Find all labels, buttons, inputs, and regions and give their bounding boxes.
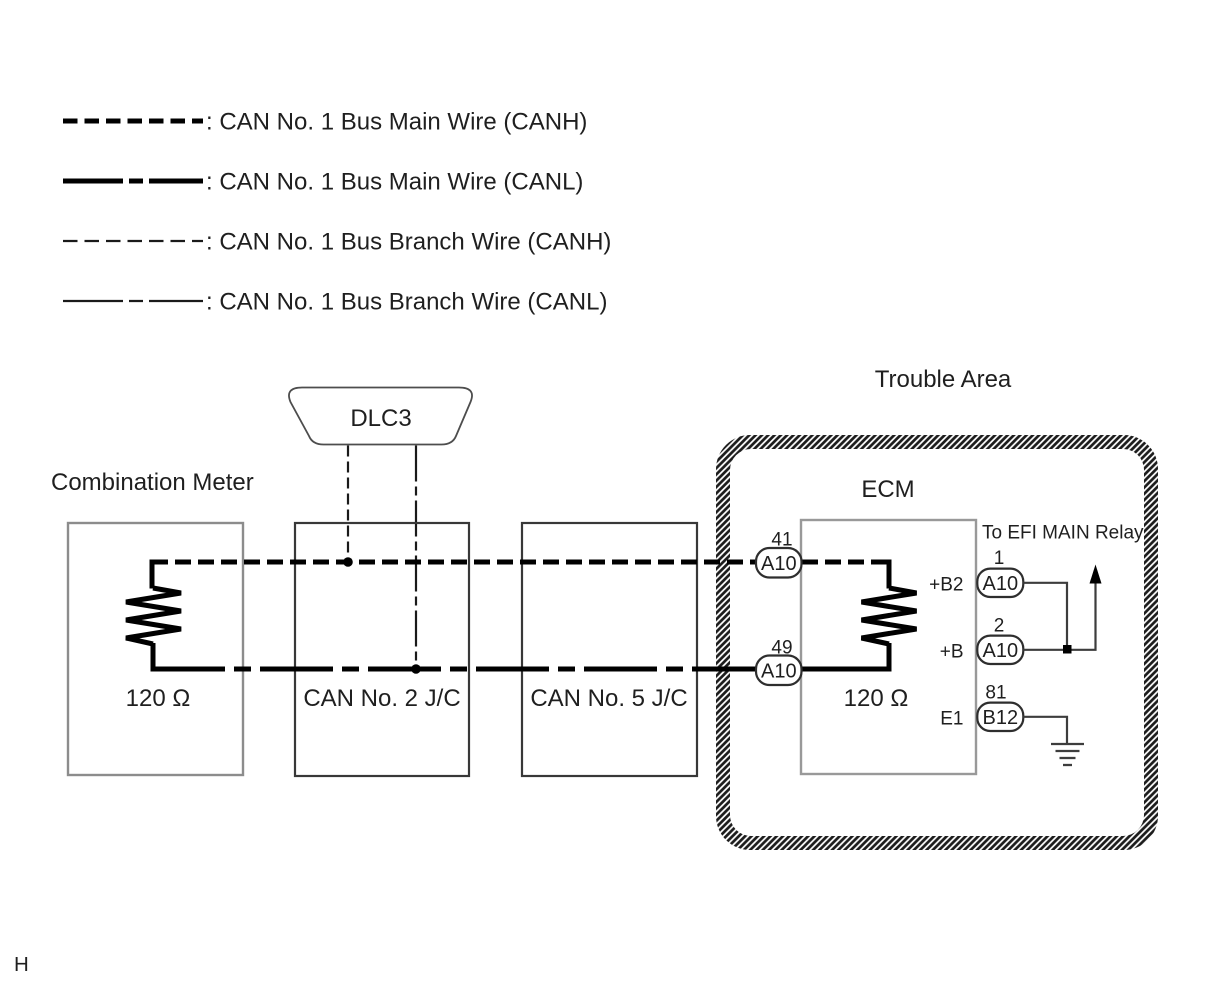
wire: resistor bottom drop (Combination Meter) [151, 643, 156, 672]
legend line sample: CAN No. 1 Bus Main Wire (CANH) [63, 119, 203, 124]
svg-text:: CAN No. 1 Bus Branch Wire (C: : CAN No. 1 Bus Branch Wire (CANH) [206, 229, 611, 256]
wire: resistor bottom drop (ECM) [887, 643, 892, 672]
wire from E1 terminal to ground [1023, 717, 1067, 744]
wire from +B2 terminal [1023, 583, 1067, 649]
arrowhead to EFI MAIN relay [1090, 565, 1102, 584]
svg-text:DLC3: DLC3 [350, 405, 411, 432]
svg-text:120 Ω: 120 Ω [126, 685, 191, 712]
svg-text:ECM: ECM [861, 476, 914, 503]
svg-text:: CAN No. 1 Bus Main Wire (CAN: : CAN No. 1 Bus Main Wire (CANH) [206, 109, 587, 136]
legend line sample: CAN No. 1 Bus Branch Wire (CANL) [63, 300, 203, 302]
svg-text:120 Ω: 120 Ω [844, 685, 909, 712]
svg-text:H: H [14, 953, 29, 976]
svg-text:+B2: +B2 [929, 575, 963, 596]
resistor 120 ohm (ECM) [862, 588, 917, 644]
wire: CANH corner drop in Combination Meter [150, 560, 155, 589]
svg-text:A10: A10 [761, 660, 797, 682]
box: ECM [801, 520, 976, 774]
resistor 120 ohm (Combination Meter) [126, 588, 181, 644]
wire: CANH corner drop in ECM [887, 560, 892, 589]
wire: CANL solid inside ECM from pin 49 to resistor [802, 667, 892, 672]
svg-text:: CAN No. 1 Bus Branch Wire (C: : CAN No. 1 Bus Branch Wire (CANL) [206, 289, 607, 316]
svg-text:+B: +B [940, 642, 964, 663]
svg-text:CAN No. 2 J/C: CAN No. 2 J/C [303, 685, 460, 712]
svg-text:Trouble Area: Trouble Area [875, 366, 1012, 393]
wire: CANH main (thick dashed) from Combination Meter to ECM pin 41 [152, 560, 756, 565]
svg-text:A10: A10 [983, 573, 1019, 595]
ground symbol [1051, 744, 1084, 765]
svg-text:B12: B12 [983, 707, 1019, 729]
terminal oval A10 pin 41 [756, 548, 802, 578]
junction dot: CANH branch on main wire [343, 557, 353, 567]
terminal oval A10 pin 49 [756, 656, 802, 686]
box: CAN No. 5 J/C [522, 523, 697, 776]
legend line sample: CAN No. 1 Bus Main Wire (CANL) [63, 179, 203, 184]
svg-text:2: 2 [994, 616, 1005, 637]
wire: CANL main (thick long-dash) from Combination Meter to ECM pin 49 [152, 667, 756, 672]
trouble area inner white [730, 449, 1144, 836]
wire from +B terminal to relay arrow [1023, 583, 1095, 650]
junction dot: CANL branch on main wire [411, 664, 421, 674]
junction square on +B wire [1063, 645, 1072, 654]
wire: DLC3 branch (CANL) down to CAN No.2 J/C [415, 446, 417, 670]
svg-text:Combination Meter: Combination Meter [51, 469, 254, 496]
trouble area hatched border (outer) [716, 435, 1158, 850]
svg-text:1: 1 [994, 548, 1005, 569]
terminal oval A10 pin 2 [977, 636, 1023, 664]
terminal oval A10 pin 1 [977, 569, 1023, 597]
svg-text:: CAN No. 1 Bus Main Wire (CAN: : CAN No. 1 Bus Main Wire (CANL) [206, 169, 583, 196]
svg-text:CAN No. 5 J/C: CAN No. 5 J/C [530, 685, 687, 712]
svg-text:A10: A10 [761, 553, 797, 575]
svg-text:To EFI MAIN Relay: To EFI MAIN Relay [982, 523, 1144, 544]
wire: CANH dashed inside ECM from pin 41 to resistor [802, 560, 889, 565]
legend line sample: CAN No. 1 Bus Branch Wire (CANH) [63, 240, 203, 242]
box: CAN No. 2 J/C [295, 523, 469, 776]
wire: DLC3 branch (CANH, dashed) down to CAN No.2 J/C [347, 446, 349, 563]
connector DLC3 (trapezoid) [289, 388, 472, 445]
terminal oval B12 pin 81 [977, 703, 1023, 731]
svg-text:E1: E1 [940, 709, 963, 730]
svg-text:81: 81 [985, 683, 1006, 704]
box: Combination Meter [68, 523, 243, 775]
svg-text:A10: A10 [983, 640, 1019, 662]
